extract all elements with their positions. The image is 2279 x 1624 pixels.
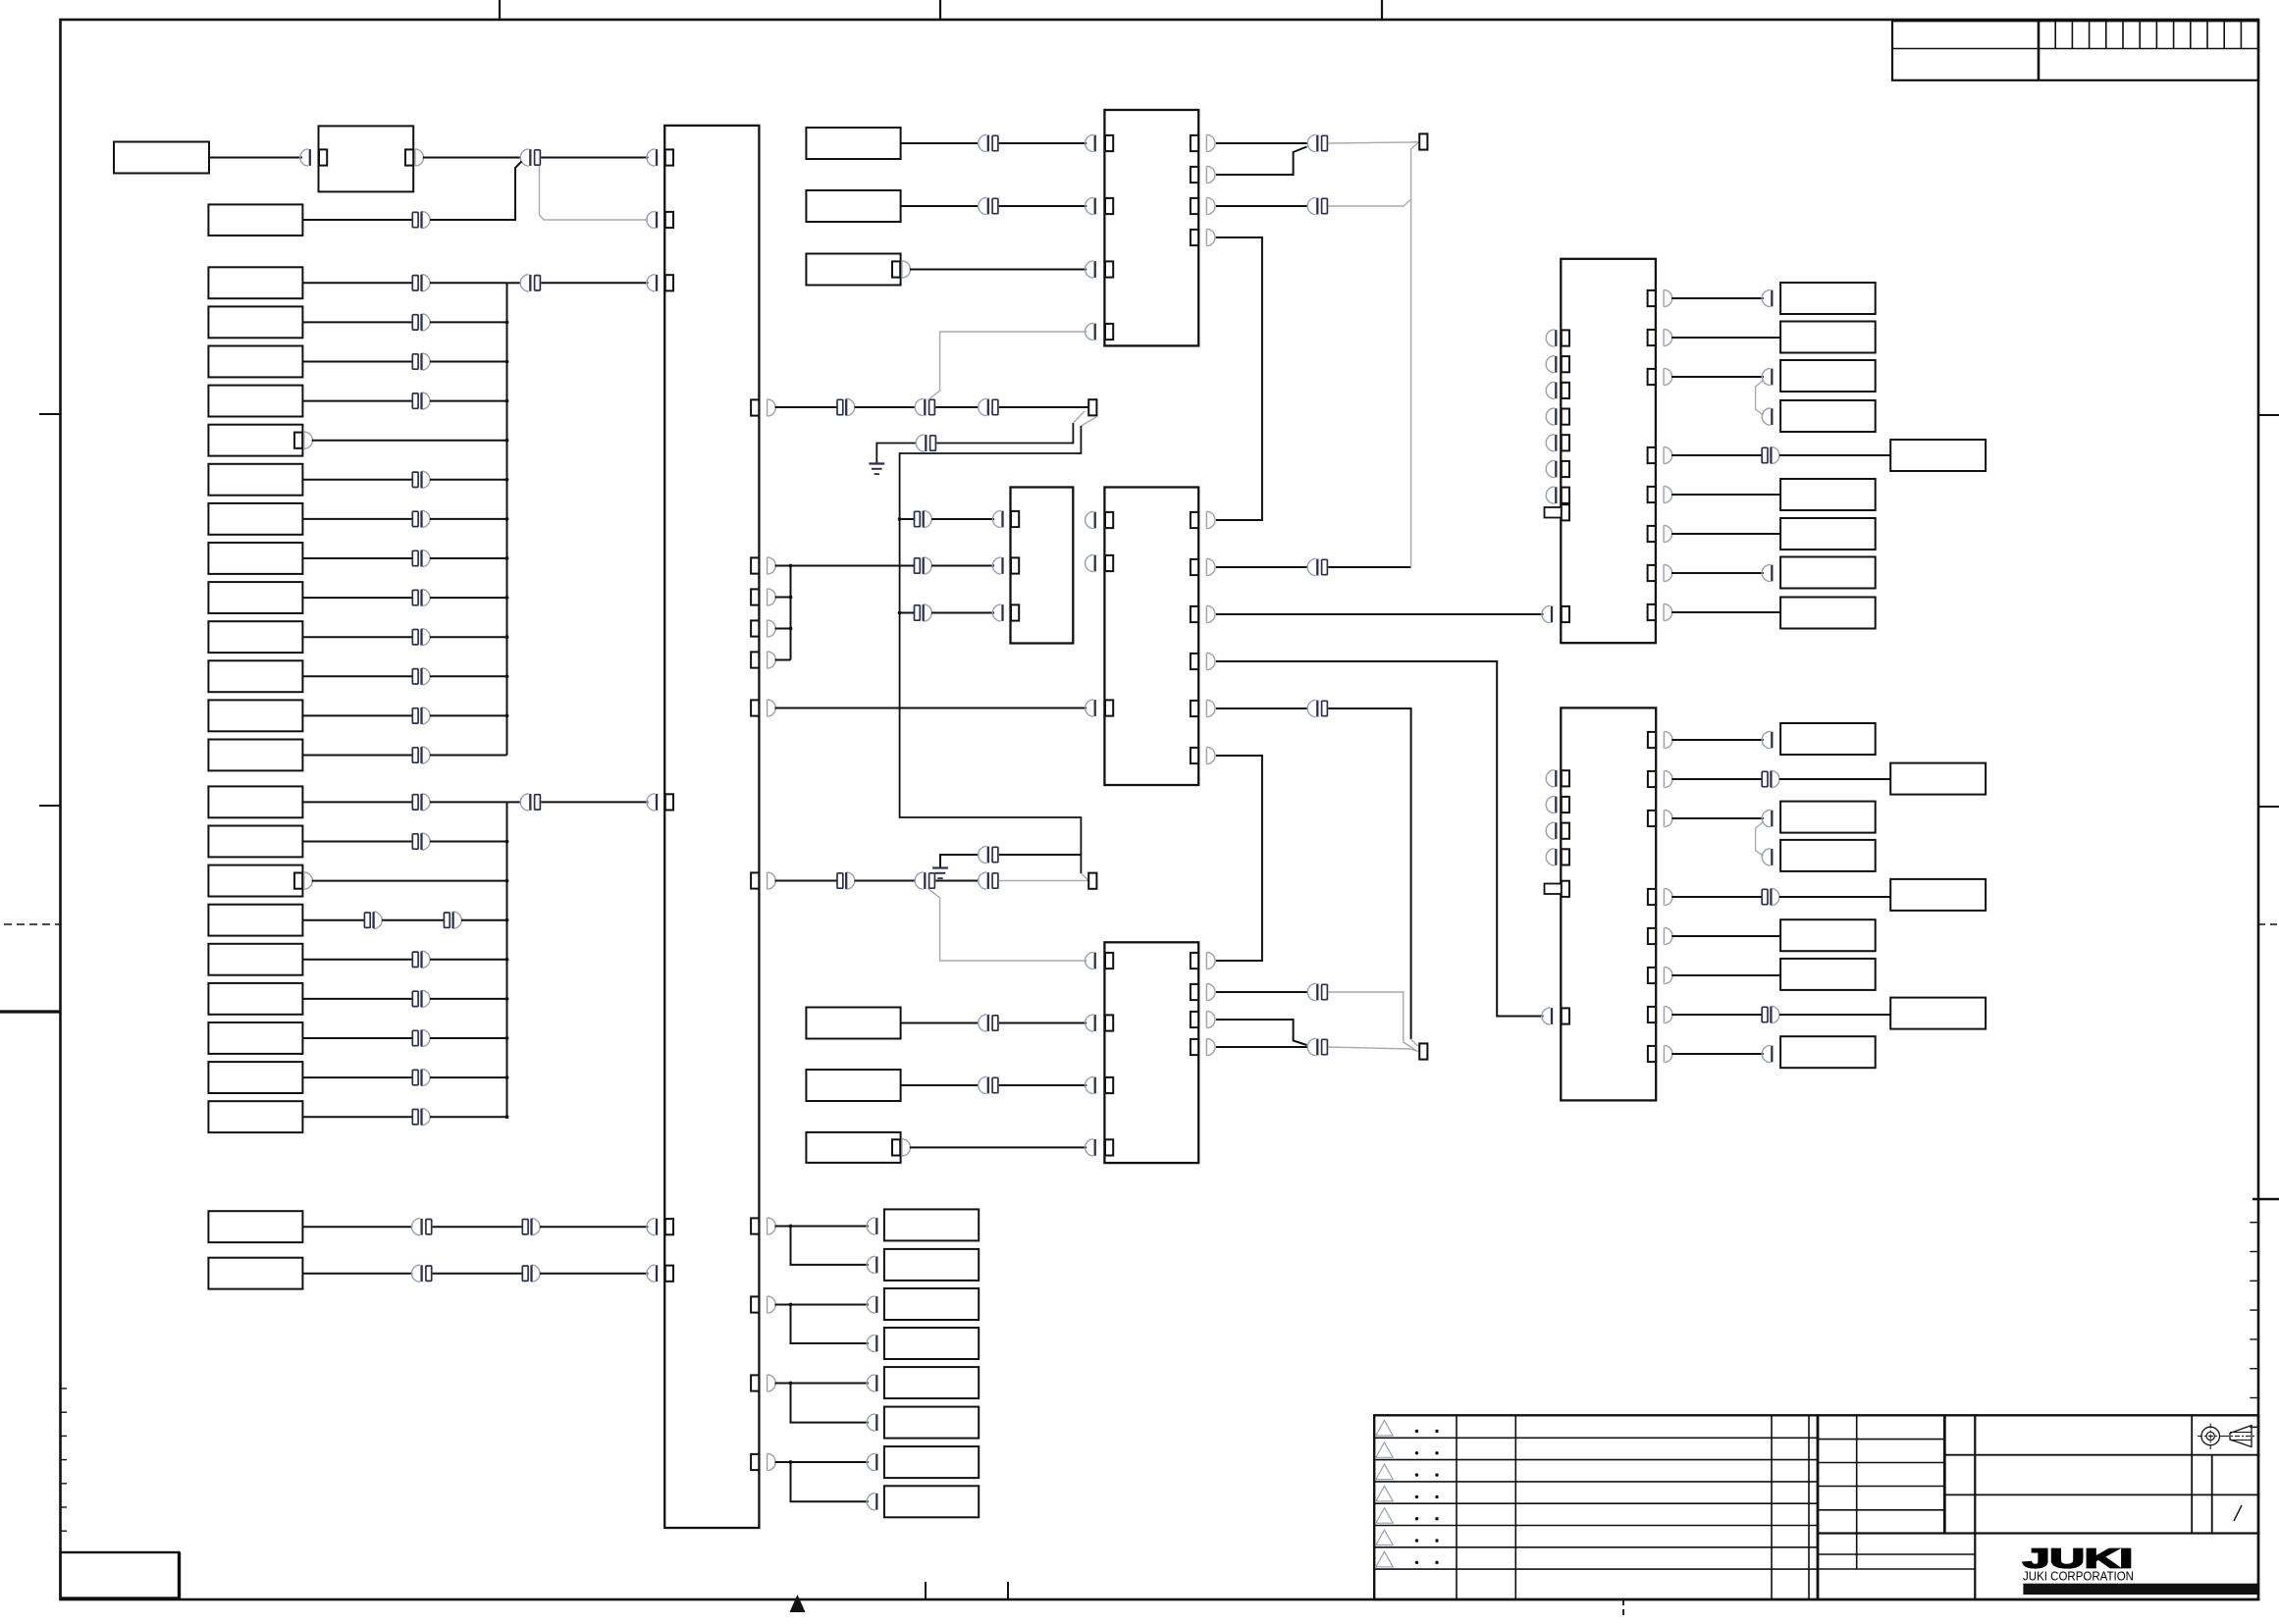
connector G2-2 <box>412 834 418 849</box>
wire G2-1b <box>430 801 507 803</box>
revision table column d <box>1808 1415 1810 1599</box>
box out E6 <box>1780 479 1876 510</box>
gray branch 834-873 <box>1756 821 1764 856</box>
crystal flag R2 <box>1545 884 1563 895</box>
pin B right y1039 <box>1191 1012 1198 1027</box>
wire G1 pair to tall block <box>541 282 648 284</box>
wire TB-2 <box>775 1304 791 1306</box>
left border tick 2 <box>39 805 61 807</box>
block R1 <box>1561 259 1656 643</box>
junction G2-2 <box>505 840 509 844</box>
wire C2-4 b <box>999 1022 1086 1024</box>
block TALL connector panel <box>664 126 759 1528</box>
pin R2 right y1034 <box>1648 1007 1656 1022</box>
box out E3 <box>1780 360 1876 392</box>
wire BL-2a <box>302 1273 412 1275</box>
plug G1-5 <box>304 432 313 448</box>
wire C2-1 b <box>999 142 1086 144</box>
wire G1-7a <box>302 518 412 520</box>
wire R2-914 <box>1671 896 1762 898</box>
wire TB-1b <box>791 1227 869 1265</box>
pin R2 flag <box>1562 881 1569 897</box>
box input G1-11 <box>208 660 302 692</box>
top-right table row divider <box>1892 48 2258 50</box>
wire ground2 to riser <box>999 854 1082 856</box>
plug CN-E8 <box>1762 564 1771 581</box>
wire BL-1c <box>540 1226 649 1228</box>
box out E4 <box>1780 400 1876 432</box>
plug CN-D2 <box>867 1256 875 1273</box>
junction G2-6 <box>505 997 509 1001</box>
wire S1 to block A <box>209 157 302 159</box>
pin TALL right y576 <box>751 557 759 573</box>
box out F6 <box>1780 919 1876 951</box>
bus group1 <box>506 283 508 755</box>
pin R2 right y794 <box>1648 771 1656 787</box>
wire G1 bus to pair <box>507 282 522 284</box>
junction G1-6 <box>505 478 509 482</box>
wire ground to pin P1 <box>936 423 1073 444</box>
pin Mb right y674 <box>1191 654 1198 669</box>
bus tall pins 576-672 <box>790 566 792 660</box>
wire T2-210 <box>1216 205 1308 207</box>
wire T897 a <box>775 880 838 882</box>
revision row line 7 <box>1374 1568 1818 1570</box>
box out D1 <box>884 1209 979 1240</box>
bottom fold triangle <box>790 1595 806 1612</box>
wire G2-6a <box>302 998 412 1000</box>
wire T2-146 <box>1216 142 1308 144</box>
block Ma <box>1011 488 1074 644</box>
wire G1-9b <box>430 597 507 599</box>
block T2 top <box>1104 110 1198 345</box>
plug CN-T5 <box>647 1219 656 1235</box>
approval column a <box>2191 1415 2193 1533</box>
junction G1-10 <box>505 635 509 639</box>
connector G2-5 <box>412 952 418 967</box>
pin Mb right y530 <box>1191 512 1198 528</box>
wire T415 d <box>999 406 1088 408</box>
plug stub R2-3 <box>1546 822 1555 839</box>
junction G1-12 <box>505 714 509 718</box>
junction G1-5 <box>505 439 509 443</box>
wire R2-754 <box>1671 739 1764 741</box>
connector G2-1 <box>412 795 418 810</box>
wire T415 b <box>855 406 916 408</box>
junction G2-4 <box>505 918 509 922</box>
svg-text:JUKI CORPORATION: JUKI CORPORATION <box>2023 1569 2134 1584</box>
pin D3 <box>884 1296 892 1312</box>
box input BL-2 <box>208 1258 302 1289</box>
pin R1 right y544 <box>1648 526 1656 542</box>
pin F1 <box>1781 732 1789 748</box>
bottom border tick 2 <box>1007 1582 1009 1599</box>
pin Mb2 <box>1105 555 1113 571</box>
box out F1 <box>1780 723 1876 755</box>
pin R1 right y584 <box>1648 565 1656 581</box>
pin D2 <box>884 1257 892 1273</box>
connector G1-4 <box>412 393 418 408</box>
gray riser to P3 <box>1411 142 1419 568</box>
wire R2-994 <box>1671 974 1780 976</box>
connector G1-9 <box>412 590 418 604</box>
connector F5 <box>1762 889 1768 904</box>
revision triangle 4 <box>1376 1486 1393 1501</box>
wire C2-1 <box>901 142 980 144</box>
wire pair to tall block <box>541 157 648 159</box>
plug CN-D5 <box>867 1375 875 1391</box>
box out F7 <box>1780 959 1876 990</box>
right border tick 1 <box>2258 414 2279 416</box>
connector G1-7 <box>412 511 418 526</box>
wire G2-4c <box>461 919 507 921</box>
box input BL-1 <box>208 1211 302 1242</box>
pin Mb3 <box>1105 700 1113 715</box>
box input G1-7 <box>208 503 302 535</box>
wire T897 c <box>935 880 979 882</box>
box input G1-9 <box>208 582 302 613</box>
wire Mb626 to R1 <box>1216 613 1544 615</box>
box source S2 <box>208 204 302 236</box>
junction G1-4 <box>505 399 509 403</box>
approval row 1 <box>1944 1454 2258 1456</box>
wire G1-10b <box>430 636 507 638</box>
box source C2-5 <box>806 1070 900 1101</box>
connector G1-12 <box>412 708 418 723</box>
revision date dots 7 <box>1415 1561 1418 1564</box>
gray link to P2 <box>1081 873 1089 881</box>
pin R2-2 <box>1562 797 1569 812</box>
wire T608 <box>775 597 791 599</box>
gray link P1 right <box>1081 417 1096 426</box>
box input G1-10 <box>208 621 302 653</box>
pin D8 <box>884 1493 892 1509</box>
box input G1-1 <box>208 267 302 298</box>
wire G2-2b <box>430 841 507 843</box>
connector S2 <box>412 212 418 227</box>
wire G1-9a <box>302 597 412 599</box>
wire R1-584 <box>1671 572 1764 574</box>
wire G1-4b <box>430 400 507 402</box>
plug stub R2-1 <box>1546 770 1555 787</box>
revision triangle 2 <box>1376 1442 1393 1458</box>
wire G1-6b <box>430 479 507 481</box>
revision row line 4 <box>1374 1502 1818 1504</box>
wire G2-8a <box>302 1076 412 1078</box>
box out D6 <box>884 1407 979 1439</box>
plug CN-B1 <box>1086 952 1094 969</box>
top border tick 3 <box>1381 0 1383 20</box>
pin TALL right y1249 <box>751 1218 759 1233</box>
connector T415 a <box>837 399 843 414</box>
plug CN-A1 <box>300 149 309 166</box>
junction G2-5 <box>505 958 509 962</box>
box out D7 <box>884 1446 979 1478</box>
junction Ma row3 <box>898 611 902 615</box>
pin T2 right y178 <box>1191 167 1198 183</box>
connector T897 a <box>837 873 843 888</box>
revision row line 5 <box>1374 1525 1818 1527</box>
pin R1 right y384 <box>1648 369 1656 385</box>
pin R1 right y624 <box>1648 604 1656 620</box>
wire P1 long run down <box>900 426 1082 873</box>
box out D3 <box>884 1288 979 1320</box>
top border tick 2 <box>939 0 941 20</box>
bottom fold dashed mark <box>1622 1599 1624 1619</box>
block A <box>319 126 414 191</box>
wire G1-4a <box>302 400 412 402</box>
junction G1-8 <box>505 556 509 560</box>
wire G1-12a <box>302 714 412 716</box>
junction G1-11 <box>505 674 509 678</box>
pin TALL right y640 <box>751 620 759 636</box>
pin D4 <box>884 1336 892 1351</box>
connector G1-2 <box>412 315 418 330</box>
pin TALL right y672 <box>751 652 759 667</box>
pin T1 <box>665 149 673 165</box>
pin R1-2 <box>1562 356 1569 372</box>
plug stub R2-4 <box>1546 849 1555 865</box>
gray branch 384-424 <box>1756 380 1764 415</box>
box input G2-3 <box>208 865 302 897</box>
left border tick 1 <box>39 413 61 415</box>
wire G1-12b <box>430 714 507 716</box>
wire G1-2a <box>302 321 412 323</box>
pin R2 right y1074 <box>1648 1046 1656 1062</box>
box input G1-8 <box>208 543 302 574</box>
plug CN-E3 <box>1762 368 1771 385</box>
wire T415 c <box>935 406 979 408</box>
wire Mb674 to R2 <box>1216 661 1544 1017</box>
box input G2-1 <box>208 786 302 817</box>
plug CN-Ma1 <box>992 510 1001 527</box>
wire G2-7b <box>430 1037 507 1039</box>
box out E7 <box>1780 518 1876 550</box>
box out D2 <box>884 1249 979 1281</box>
box source C2-4 <box>806 1008 900 1039</box>
wire B979 <box>1216 960 1262 962</box>
junction G2-9 <box>505 1115 509 1119</box>
wire TB-4 <box>775 1461 791 1463</box>
wire B1039 <box>1216 1020 1307 1045</box>
revision table column c <box>1771 1415 1773 1599</box>
plug stub Mb1 <box>1086 511 1094 528</box>
plug CN-T2-4 <box>1086 323 1094 340</box>
junction 608 <box>789 596 793 600</box>
wire R1-384 <box>1671 376 1764 378</box>
pin T2 <box>665 212 673 228</box>
plug stub R1-1 <box>1546 330 1555 346</box>
connector ground pair <box>916 435 925 451</box>
pin P1 <box>1088 399 1096 415</box>
ground G1 wire <box>876 444 917 464</box>
wire C2-2 <box>901 205 980 207</box>
box out F5 wide <box>1890 879 1986 911</box>
connector Ma row1 <box>915 511 921 526</box>
wire Ma row2 b <box>931 565 994 567</box>
top-right table thick column divider <box>2038 21 2040 80</box>
wire G1-2b <box>430 321 507 323</box>
wire TB-4b <box>791 1462 869 1501</box>
plug stub R1-4 <box>1546 408 1555 425</box>
plug G2-3 <box>304 872 313 889</box>
box input G1-12 <box>208 700 302 731</box>
pin Mb right y626 <box>1191 606 1198 622</box>
junction Ma row1 <box>898 517 902 521</box>
connector pair B1067 <box>1307 1038 1316 1055</box>
middle bottom row 2 <box>1818 1568 1975 1570</box>
box out E8 <box>1780 557 1876 589</box>
connector G2-7 <box>412 1030 418 1045</box>
title column 2012 <box>1974 1415 1976 1599</box>
revision date dots 5 <box>1415 1517 1418 1520</box>
wire Mb530 to T239 <box>1216 237 1262 520</box>
pin R2 right y754 <box>1648 732 1656 748</box>
right border tick 2 <box>2258 806 2279 808</box>
box source C2-3 <box>806 254 900 286</box>
wire G1-11b <box>430 675 507 677</box>
middle table row 4 <box>1818 1509 1944 1511</box>
pin F4 <box>1781 849 1789 864</box>
slash mark <box>2234 1505 2242 1521</box>
wire BL-1b <box>433 1226 523 1228</box>
plug CN-F1 <box>1762 731 1771 748</box>
connector pair Mb578 <box>1307 558 1316 575</box>
pin R1-7 <box>1562 488 1569 503</box>
wire G1-8a <box>302 557 412 559</box>
box out F3 <box>1780 802 1876 833</box>
pin D6 <box>884 1415 892 1431</box>
connector G2-6 <box>412 991 418 1006</box>
left border dash mark <box>4 923 61 925</box>
plug CN-D3 <box>867 1296 875 1313</box>
wire TB-3a <box>791 1383 869 1385</box>
pin P3 <box>1419 133 1427 149</box>
pin B1 <box>1105 953 1113 969</box>
pin D7 <box>884 1454 892 1470</box>
title row JUKI top <box>1818 1532 2258 1534</box>
pin TALL right y1329 <box>751 1296 759 1312</box>
pin T2 right y146 <box>1191 135 1198 151</box>
wire G1-8b <box>430 557 507 559</box>
wire R1-544 <box>1671 533 1780 535</box>
wire G1-1a <box>302 282 412 284</box>
pin D1 <box>884 1218 892 1233</box>
pin T4 <box>665 794 673 810</box>
wire Mb578 b <box>1328 566 1410 568</box>
plug CN-F9 <box>1762 1045 1771 1062</box>
wire R1-304 <box>1671 297 1764 299</box>
wire T415 a <box>775 406 838 408</box>
top-right table small columns <box>2054 21 2056 48</box>
wire G1-1b <box>430 282 507 284</box>
revision triangle 1 <box>1376 1421 1393 1437</box>
pin TALL right y897 <box>751 872 759 888</box>
connector G2-8 <box>412 1070 418 1084</box>
wire F2 <box>1779 778 1890 780</box>
plug CN-T6 <box>647 1265 656 1282</box>
plug CN-E1 <box>1762 289 1771 306</box>
box source C2-2 <box>806 190 900 222</box>
bottom border tick 1 <box>925 1582 927 1599</box>
wire T640 <box>775 628 791 630</box>
plug stub R2-2 <box>1546 796 1555 812</box>
connector T897 c <box>979 872 987 889</box>
wire R2-1074 <box>1671 1053 1764 1055</box>
wire Mb722 b <box>1328 708 1410 1039</box>
pin TALL right y608 <box>751 589 759 604</box>
wire S2 to bend <box>430 161 522 220</box>
wire G2-4b <box>382 919 444 921</box>
pin A left <box>319 149 327 165</box>
plug CN-B3 <box>1086 1076 1094 1093</box>
connector Ma row3 <box>915 605 921 620</box>
wire F8 <box>1779 1014 1890 1016</box>
revision date dots 6 <box>1415 1539 1418 1542</box>
connector G1-11 <box>412 669 418 684</box>
pin R2 right y954 <box>1648 928 1656 944</box>
wire G1-3b <box>430 361 507 363</box>
middle table row 1 <box>1818 1439 1944 1441</box>
ground G1 <box>869 462 884 464</box>
wire G1-7b <box>430 518 507 520</box>
plug CN-Ma3 <box>992 604 1001 621</box>
junction 640 <box>789 627 793 631</box>
wire C2-4 <box>901 1022 980 1024</box>
wire F5 <box>1779 896 1890 898</box>
plug CN-T2-3 <box>1086 261 1094 278</box>
wire TB-4a <box>791 1461 869 1463</box>
box input G2-6 <box>208 983 302 1015</box>
pin B right y1011 <box>1191 984 1198 1000</box>
plug CN-Ma2 <box>992 557 1001 574</box>
pin Ma2 <box>1011 557 1019 573</box>
wire Mb722 <box>1216 707 1308 709</box>
plug CN-D1 <box>867 1218 875 1234</box>
middle table column thin <box>1856 1415 1858 1569</box>
pin B right y979 <box>1191 953 1198 969</box>
plug A out <box>415 149 424 166</box>
plug CN-T2-1 <box>1086 134 1094 151</box>
wire G2-7a <box>302 1037 412 1039</box>
gray wire B1066 to P4 <box>1328 1047 1418 1052</box>
plug CN-R2L <box>1542 1008 1551 1024</box>
wire G2-5b <box>430 959 507 961</box>
pin Mb right y722 <box>1191 701 1198 716</box>
wire R1-624 <box>1671 611 1780 613</box>
top border tick 1 <box>499 0 501 20</box>
plug CN-T2-2 <box>1086 197 1094 214</box>
connector pair G1 <box>520 275 529 291</box>
wire C2-2 b <box>999 205 1086 207</box>
junction TB-4 <box>789 1460 793 1464</box>
pin TALL right y415 <box>751 399 759 415</box>
box input G2-5 <box>208 944 302 975</box>
title block frame <box>1374 1415 2258 1599</box>
plug CN-T2 <box>647 211 656 228</box>
box source S1 <box>114 142 209 174</box>
wire T576 out <box>775 565 791 567</box>
wire TB-1 <box>775 1226 791 1228</box>
pin R1-1 <box>1562 330 1569 345</box>
pin B3 <box>1105 1077 1113 1093</box>
connector G2-9 <box>412 1110 418 1125</box>
pin Ma1 <box>1011 511 1019 527</box>
box input G1-6 <box>208 464 302 496</box>
junction G1-2 <box>505 321 509 325</box>
pin B2 <box>1105 1015 1113 1030</box>
box source C2-1 <box>806 128 900 159</box>
